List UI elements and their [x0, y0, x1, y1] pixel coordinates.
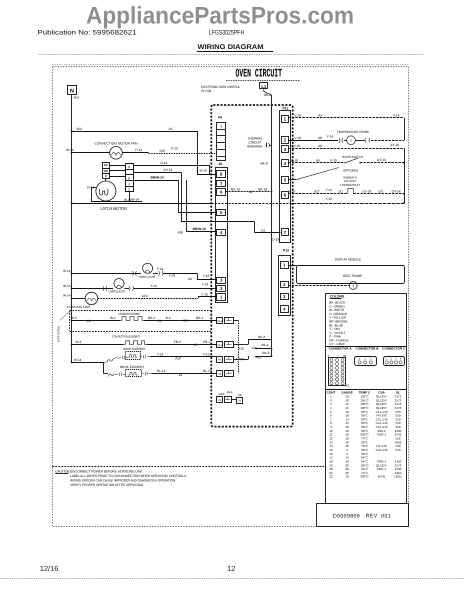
svg-text:W-14: W-14 — [63, 269, 71, 273]
diagram outer border frame — [53, 67, 409, 527]
svg-text:W-5: W-5 — [71, 316, 77, 320]
svg-text:WIRING DIAGRAM: WIRING DIAGRAM — [198, 44, 264, 51]
svg-text:W-6: W-6 — [74, 96, 80, 100]
latch connector stack — [126, 164, 134, 192]
svg-text:T: T — [292, 281, 294, 285]
relay row broil — [217, 371, 223, 377]
svg-text:A12: A12 — [256, 356, 262, 360]
svg-text:Y-14: Y-14 — [327, 134, 334, 138]
svg-text:D-19: D-19 — [272, 238, 279, 242]
svg-text:NC: NC — [104, 163, 108, 167]
svg-text:P6: P6 — [218, 115, 222, 119]
svg-text:BL-19: BL-19 — [203, 369, 212, 373]
svg-text:J6: J6 — [218, 162, 222, 166]
svg-text:GY-18: GY-18 — [362, 190, 371, 194]
svg-text:CONNECTOR C: CONNECTOR C — [382, 347, 406, 351]
svg-text:A9: A9 — [318, 114, 322, 118]
svg-text:A8: A8 — [318, 136, 322, 140]
svg-text:BAKE ELEMENT: BAKE ELEMENT — [124, 347, 146, 351]
oven light 1 — [71, 273, 73, 275]
svg-text:8: 8 — [128, 176, 130, 180]
svg-text:W-6: W-6 — [77, 127, 83, 131]
svg-text:18: 18 — [345, 475, 349, 479]
wire O-14 — [133, 165, 197, 167]
svg-text:OVEN CIRCUIT: OVEN CIRCUIT — [236, 68, 283, 81]
svg-text:9: 9 — [128, 165, 130, 169]
svg-text:A9: A9 — [188, 277, 192, 281]
bake coil — [107, 359, 113, 362]
svg-text:OVEN LIGHT: OVEN LIGHT — [108, 290, 125, 294]
svg-text:C2: C2 — [158, 319, 162, 323]
svg-text:OVEN LIGHT: OVEN LIGHT — [139, 275, 156, 279]
svg-text:BLK: BLK — [227, 390, 232, 394]
svg-text:SGR-1: SGR-1 — [377, 433, 387, 437]
svg-text:BR/W-14: BR/W-14 — [151, 176, 164, 180]
wire W-6 to EOC pin 8 — [71, 130, 73, 132]
svg-text:VERIFY PROPER OPERATION AFTER: VERIFY PROPER OPERATION AFTER SERVICING. — [70, 483, 144, 487]
svg-text:N: N — [70, 88, 74, 94]
svg-text:P3: P3 — [238, 400, 242, 403]
svg-text:MTW: MTW — [378, 475, 385, 479]
W-14 feed to igniters — [71, 362, 73, 364]
legend and table column box — [326, 294, 407, 504]
svg-text:COLORS: COLORS — [330, 294, 345, 298]
svg-text:P1: P1 — [218, 399, 222, 402]
broil coil — [103, 373, 108, 375]
svg-text:Publication No: 5995682621: Publication No: 5995682621 — [38, 30, 137, 37]
wire BR/W-19 to J6 pin 4 — [186, 180, 188, 232]
svg-text:W-14: W-14 — [124, 198, 132, 202]
svg-text:CONNECTOR B: CONNECTOR B — [356, 347, 380, 351]
svg-text:10: 10 — [346, 383, 350, 387]
connector label W-19 box — [198, 166, 210, 175]
svg-text:GY - GRAY: GY - GRAY — [329, 342, 345, 346]
svg-text:P-18: P-18 — [291, 158, 298, 162]
svg-text:G3: G3 — [379, 190, 383, 194]
svg-text:B-9: B-9 — [166, 316, 171, 320]
node L1 — [260, 83, 268, 89]
svg-text:GY-20: GY-20 — [377, 158, 386, 162]
svg-text:1: 1 — [220, 125, 222, 129]
wire P-19 to P6 — [149, 153, 217, 155]
svg-text:550: 550 — [395, 448, 400, 452]
svg-text:Y-18: Y-18 — [203, 274, 210, 278]
svg-text:BR/W-19: BR/W-19 — [193, 227, 206, 231]
svg-text:A10: A10 — [142, 294, 148, 298]
svg-text:BK-8: BK-8 — [263, 351, 270, 355]
page perforation dotted lines — [38, 54, 424, 56]
wire table — [325, 389, 407, 391]
svg-text:SGR-1: SGR-1 — [377, 467, 387, 471]
wire BR/W-14 to J6 pin 5 — [133, 180, 178, 182]
svg-text:BK-8: BK-8 — [261, 161, 268, 165]
svg-text:P8: P8 — [218, 359, 222, 362]
svg-text:LATCH MOTOR: LATCH MOTOR — [100, 206, 127, 211]
svg-text:W-14: W-14 — [66, 148, 74, 152]
svg-text:A10: A10 — [175, 356, 181, 360]
relay row bake — [217, 357, 223, 363]
svg-text:Y-18: Y-18 — [289, 190, 296, 194]
wire main neutral bus vertical — [71, 94, 73, 362]
svg-text:P13: P13 — [217, 320, 222, 323]
svg-text:BK-19: BK-19 — [231, 187, 240, 191]
wire W-14 long run — [71, 202, 73, 204]
svg-text:W-19: W-19 — [200, 168, 208, 172]
svg-text:CAUTION:DISCONNECT POWER BEFOR: CAUTION:DISCONNECT POWER BEFORE SERVICIN… — [55, 469, 143, 473]
svg-text:P-20: P-20 — [330, 158, 337, 162]
svg-text:12/16: 12/16 — [40, 564, 59, 573]
optional switch — [288, 179, 296, 181]
svg-text:L1: L1 — [261, 84, 267, 89]
svg-text:THERMOSTAT: THERMOSTAT — [340, 183, 360, 187]
svg-text:W-14: W-14 — [63, 293, 71, 297]
svg-text:W-3: W-3 — [75, 340, 81, 344]
svg-text:Y-18: Y-18 — [169, 274, 176, 278]
svg-text:GRY: GRY — [219, 392, 225, 396]
caution separator — [52, 466, 325, 468]
revision box D0009809 REV 001 — [317, 504, 409, 527]
connector header row — [325, 346, 407, 348]
wire BK-19 A2 from J6 pin6 — [226, 191, 272, 193]
svg-text:MEAT PROBE: MEAT PROBE — [343, 274, 362, 278]
wire P11 pin1 V-18 — [288, 117, 404, 119]
svg-text:WIRING ERRORS CAN CAUSE IMPROP: WIRING ERRORS CAN CAUSE IMPROPER AND DAN… — [70, 478, 176, 482]
wire GY-14 / J11 to P11 pin7 — [133, 172, 181, 174]
svg-text:Y-14: Y-14 — [325, 188, 332, 192]
svg-text:W-1: W-1 — [110, 316, 116, 320]
svg-text:W-14: W-14 — [74, 358, 82, 362]
cooling fan — [71, 298, 73, 300]
svg-text:A6: A6 — [169, 127, 173, 131]
svg-text:A4: A4 — [179, 373, 183, 377]
svg-text:A5: A5 — [316, 158, 320, 162]
svg-text:CONVECTION ELEMENT: CONVECTION ELEMENT — [112, 335, 140, 339]
svg-text:W-14: W-14 — [132, 198, 140, 202]
svg-text:SPARKER ELEMENT: SPARKER ELEMENT — [118, 312, 140, 316]
optional group dashed box — [70, 310, 211, 312]
svg-text:Y-14: Y-14 — [157, 267, 164, 271]
svg-text:BROIL ELEMENT: BROIL ELEMENT — [120, 365, 144, 369]
svg-text:P11: P11 — [217, 344, 222, 347]
svg-text:LFGS3025PFH: LFGS3025PFH — [209, 30, 245, 37]
latch switch contacts NC NO C — [103, 163, 110, 169]
svg-text:ELECTRONIC OVEN CONTROL: ELECTRONIC OVEN CONTROL — [201, 85, 240, 89]
svg-text:BK-8: BK-8 — [264, 93, 271, 97]
svg-text:G1: G1 — [339, 190, 343, 194]
svg-text:O-14: O-14 — [160, 161, 167, 165]
svg-text:12: 12 — [227, 564, 235, 573]
svg-text:Y-10: Y-10 — [201, 292, 208, 296]
svg-text:BK-8: BK-8 — [258, 335, 265, 339]
svg-text:CONVECTION MOTOR FAN: CONVECTION MOTOR FAN — [95, 142, 139, 146]
svg-text:GY-18: GY-18 — [291, 144, 300, 148]
svg-text:Y-19: Y-19 — [325, 197, 332, 201]
svg-text:BK-8: BK-8 — [262, 343, 269, 347]
svg-text:2: 2 — [128, 188, 130, 192]
connector J6 — [216, 168, 228, 303]
svg-text:LABEL ALL WIRES PRIOR TO DISCO: LABEL ALL WIRES PRIOR TO DISCONNECTION W… — [70, 474, 187, 478]
svg-text:GY-14: GY-14 — [164, 168, 173, 172]
svg-text:GY-18: GY-18 — [390, 143, 399, 147]
svg-text:A17: A17 — [314, 190, 320, 194]
svg-text:P11: P11 — [283, 107, 289, 111]
svg-text:BK-19: BK-19 — [258, 187, 267, 191]
svg-text:200°C: 200°C — [360, 475, 369, 479]
BK-8 stub wires — [248, 339, 272, 341]
svg-text:COOLING FAN: COOLING FAN — [67, 305, 90, 309]
connector C — [384, 357, 405, 366]
svg-text:J11: J11 — [261, 228, 266, 232]
svg-text:BR-1: BR-1 — [196, 316, 203, 320]
svg-text:V-18: V-18 — [294, 114, 301, 118]
relay K15 row (sparker) — [217, 318, 223, 324]
connector B — [355, 357, 377, 366]
svg-text:1: 1 — [128, 182, 130, 186]
EOC electronic oven control board box — [211, 105, 292, 427]
svg-text:W-14: W-14 — [63, 284, 71, 288]
latch motor — [96, 181, 116, 201]
svg-text:GY-14: GY-14 — [392, 190, 401, 194]
svg-text:Y-14: Y-14 — [150, 284, 157, 288]
svg-text:PB-1: PB-1 — [203, 340, 210, 344]
svg-text:A14: A14 — [183, 318, 189, 322]
svg-text:OPTIONAL: OPTIONAL — [343, 169, 359, 173]
svg-text:P12: P12 — [283, 249, 289, 253]
svg-text:V-18: V-18 — [294, 136, 301, 140]
svg-text:Y-18: Y-18 — [202, 283, 209, 287]
svg-text:BL-14: BL-14 — [157, 369, 166, 373]
svg-text:PB-9: PB-9 — [174, 340, 181, 344]
svg-text:DV COM: DV COM — [201, 89, 211, 93]
svg-text:Y-14: Y-14 — [157, 352, 164, 356]
svg-text:V-18: V-18 — [393, 114, 400, 118]
svg-text:A30: A30 — [178, 231, 184, 235]
svg-text:(105): (105) — [394, 475, 401, 479]
svg-text:BREAKER: BREAKER — [247, 145, 263, 149]
svg-text:CXL-140: CXL-140 — [376, 448, 388, 452]
svg-text:K15: K15 — [238, 346, 244, 350]
svg-text:A16: A16 — [252, 346, 258, 350]
svg-text:A8: A8 — [318, 144, 322, 148]
svg-text:P-14: P-14 — [135, 148, 142, 152]
oven light 2 — [71, 288, 73, 290]
relay row convection — [217, 342, 223, 348]
svg-text:A2: A2 — [249, 190, 253, 194]
wire BK-8 bus — [264, 89, 272, 95]
svg-text:A7: A7 — [194, 343, 198, 347]
svg-text:C4: C4 — [87, 319, 91, 323]
svg-text:DOOR SWITCH: DOOR SWITCH — [342, 155, 363, 159]
svg-text:Y-19: Y-19 — [203, 352, 210, 356]
node N — [68, 86, 77, 95]
svg-text:TEMPERATURE PROBE: TEMPERATURE PROBE — [337, 130, 369, 134]
wires latch switch to connector — [109, 165, 125, 167]
svg-text:P3: P3 — [218, 373, 222, 376]
svg-text:22: 22 — [329, 475, 333, 479]
svg-text:AppliancePartsPros.com: AppliancePartsPros.com — [86, 3, 354, 30]
svg-text:P-19: P-19 — [171, 146, 178, 150]
svg-text:#33: #33 — [159, 149, 165, 153]
svg-text:DK: DK — [238, 393, 242, 397]
svg-text:BR-1: BR-1 — [148, 316, 155, 320]
wire P11 pin3 GY-18 — [288, 148, 404, 150]
label OPTIONAL rotated — [60, 311, 70, 320]
svg-text:D0009809 REV 001: D0009809 REV 001 — [333, 513, 391, 519]
svg-text:C: C — [105, 174, 107, 178]
svg-text:CONNECTOR A: CONNECTOR A — [329, 347, 353, 351]
svg-text:OPTIONAL: OPTIONAL — [57, 325, 61, 342]
svg-text:DISPLAY MODULE: DISPLAY MODULE — [335, 257, 361, 261]
